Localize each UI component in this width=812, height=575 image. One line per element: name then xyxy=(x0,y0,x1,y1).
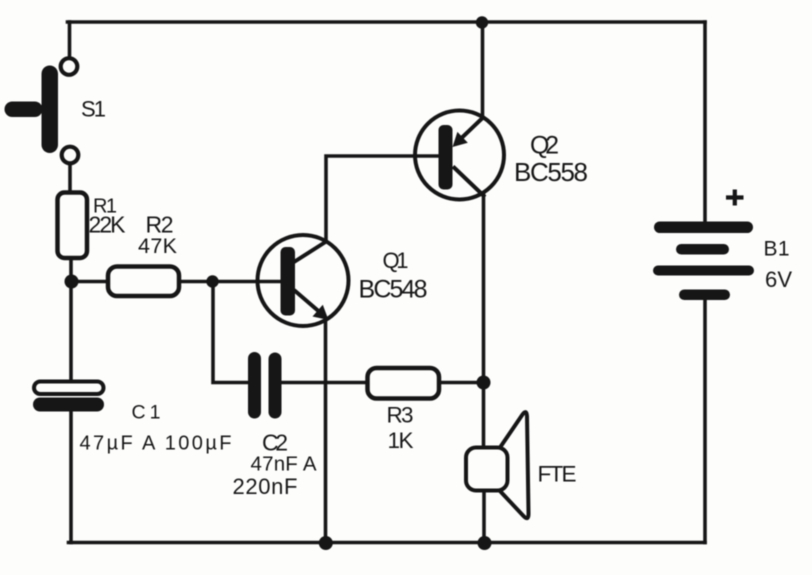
svg-text:47µF A 100µF: 47µF A 100µF xyxy=(80,433,232,455)
svg-text:Q2: Q2 xyxy=(530,132,559,160)
svg-text:220nF: 220nF xyxy=(233,474,298,499)
svg-text:C1: C1 xyxy=(132,402,161,424)
svg-text:FTE: FTE xyxy=(538,462,577,487)
svg-text:B1: B1 xyxy=(764,238,790,261)
svg-text:R3: R3 xyxy=(387,403,414,428)
svg-text:47K: 47K xyxy=(138,234,178,258)
svg-text:BC558: BC558 xyxy=(514,157,588,187)
svg-text:1K: 1K xyxy=(388,428,414,453)
svg-text:22K: 22K xyxy=(89,212,127,238)
svg-text:BC548: BC548 xyxy=(359,276,428,304)
svg-text:47nF A: 47nF A xyxy=(251,453,317,476)
svg-text:Q1: Q1 xyxy=(383,248,409,273)
svg-text:S1: S1 xyxy=(81,97,106,122)
svg-text:6V: 6V xyxy=(765,267,792,292)
